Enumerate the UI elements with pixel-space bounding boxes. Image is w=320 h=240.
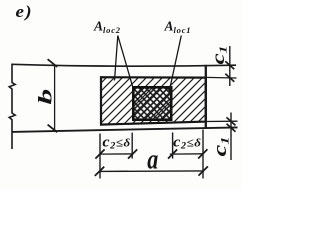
area Aloc1 cross-hatched rectangle [133, 87, 171, 119]
tick c2-2 left [168, 149, 177, 158]
tick b top [48, 59, 58, 67]
extension line c2-2 left [172, 132, 174, 158]
svg-text:е): е) [16, 2, 33, 22]
svg-text:a: a [147, 143, 158, 176]
tick c2-1 right [128, 149, 137, 158]
dimension c2-2 line [170, 153, 203, 155]
plate left edge with break zigzags [9, 64, 15, 150]
svg-text:b: b [35, 89, 56, 105]
area Aloc2 hatched rectangle [101, 77, 206, 124]
Aloc2 bottom edge extension [206, 120, 238, 122]
tick c2-2 right [198, 149, 207, 158]
dimension c2-1 line [100, 153, 134, 155]
tick c1 bottom upper [227, 117, 236, 125]
plate right edge [205, 65, 207, 129]
extension line c2-1 right [131, 133, 133, 159]
dimension c1 bottom line [230, 113, 232, 161]
svg-text:c2≤δ: c2≤δ [173, 134, 201, 152]
extension line a right [202, 130, 204, 179]
dimension c1 top line [229, 46, 231, 86]
arrowhead of Aloc1 leader [167, 87, 172, 93]
tick c1 top upper [225, 61, 234, 69]
plate bottom edge [12, 127, 238, 131]
dimension a line [99, 170, 203, 173]
leader from Aloc1 label [170, 36, 182, 90]
dimension b line [54, 66, 56, 132]
tick c1 bottom lower [227, 124, 236, 132]
leader fork from Aloc2 label [115, 36, 134, 88]
extension line a left [99, 134, 101, 179]
tick c1 top lower [225, 74, 234, 82]
svg-text:c2≤δ: c2≤δ [102, 134, 130, 152]
Aloc2 top edge extension [206, 76, 237, 79]
tick b bottom [48, 125, 58, 133]
plate top edge [12, 64, 237, 66]
tick a right [199, 166, 208, 175]
tick a left [95, 167, 104, 176]
tick c2-1 left [95, 149, 104, 158]
